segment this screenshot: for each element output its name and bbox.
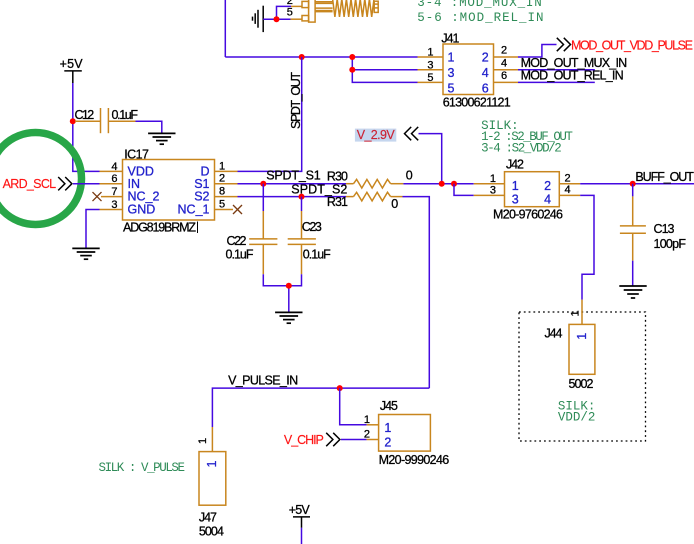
wire vertical into page top — [224, 0, 226, 57]
svg-text:4: 4 — [482, 66, 489, 80]
J42 pin numbers outside — [490, 173, 571, 197]
wire up to connector pin2 — [277, 6, 292, 19]
svg-text:5: 5 — [219, 199, 225, 211]
text cursor bar — [197, 222, 199, 234]
svg-text:SPDT_OUT: SPDT_OUT — [289, 72, 303, 129]
svg-text:3: 3 — [490, 185, 496, 197]
svg-text:1: 1 — [219, 160, 225, 172]
connector J42 — [474, 172, 581, 207]
svg-text:6: 6 — [501, 70, 507, 82]
wire C12 to ground — [136, 121, 162, 133]
J41 pin numbers inside — [448, 51, 489, 96]
junction J42 pin3 branch — [451, 181, 457, 187]
wire branch to J45 pin1 — [340, 388, 367, 425]
wire SPDT_OUT vertical — [238, 57, 302, 171]
svg-text:IN: IN — [128, 177, 141, 191]
svg-text:7: 7 — [111, 186, 117, 198]
svg-text:M20-9760246: M20-9760246 — [493, 208, 563, 222]
svg-text:6: 6 — [482, 82, 489, 96]
svg-text:+5V: +5V — [289, 503, 311, 517]
svg-text:4: 4 — [544, 192, 551, 206]
svg-text:VDD/2: VDD/2 — [558, 411, 596, 425]
wire R31 down to V_PULSE_IN — [403, 197, 430, 389]
port chevron ARD_SCL — [58, 177, 72, 190]
svg-text:J47: J47 — [199, 511, 217, 525]
svg-text:1: 1 — [569, 310, 581, 316]
wire SPDT_S1 — [238, 183, 347, 185]
wire ground to connector pin5 — [263, 18, 290, 20]
svg-text:0: 0 — [406, 168, 413, 182]
svg-text:61300621121: 61300621121 — [443, 96, 511, 110]
svg-text:NC_1: NC_1 — [178, 203, 210, 217]
svg-text:2: 2 — [501, 45, 507, 57]
junction S1 / C22 — [260, 181, 266, 187]
connector J44 — [569, 300, 595, 375]
wire V_CHIP to J45 pin2 — [341, 439, 367, 441]
wire stub to ground — [288, 286, 290, 312]
coax connector J40 body (cut off at top) — [302, 0, 378, 22]
svg-text:R30: R30 — [327, 169, 348, 183]
svg-text:J45: J45 — [380, 399, 398, 413]
svg-text:J42: J42 — [506, 158, 524, 172]
svg-text:2: 2 — [364, 429, 370, 441]
silk note at J44 — [558, 400, 596, 425]
highlight circle (green) — [0, 133, 82, 225]
junction S2 / C23 — [299, 194, 305, 200]
svg-text:1: 1 — [490, 173, 496, 185]
svg-text:C12: C12 — [75, 108, 95, 122]
svg-text:GND: GND — [128, 203, 156, 217]
svg-text:5: 5 — [287, 7, 293, 19]
svg-text:MOD_OUT_VDD_PULSE: MOD_OUT_VDD_PULSE — [571, 39, 693, 53]
svg-text:1: 1 — [512, 179, 519, 193]
svg-text:5002: 5002 — [569, 377, 594, 391]
wire J41 pin2 to MOD_OUT_VDD_PULSE — [518, 45, 557, 58]
junction J41 branch mid — [349, 67, 355, 73]
connector J41 — [418, 44, 519, 95]
svg-text:1: 1 — [364, 414, 370, 426]
svg-text:4: 4 — [565, 184, 571, 196]
svg-text:3: 3 — [512, 192, 519, 206]
svg-text:3: 3 — [427, 59, 433, 71]
junction V_PULSE_IN / J45 — [337, 385, 343, 391]
svg-text:1: 1 — [575, 333, 589, 340]
wire MOD_OUT_REL_IN — [518, 81, 595, 83]
ground at IC17 — [72, 248, 99, 259]
net flag V_2.9V — [355, 128, 396, 142]
connector pin 2 stub — [291, 5, 302, 7]
svg-text:0.1uF: 0.1uF — [303, 248, 331, 262]
svg-text:8: 8 — [219, 186, 225, 198]
wire C13 to ground — [632, 261, 634, 286]
connector J45 — [367, 415, 431, 452]
wire branch to J41 pin3 — [352, 57, 417, 82]
svg-text:2: 2 — [482, 51, 489, 65]
power +5V top — [60, 57, 84, 83]
port chevron V_CHIP — [326, 433, 340, 446]
ground at C22/C23 — [275, 312, 302, 323]
svg-text:+5V: +5V — [60, 57, 84, 71]
capacitor C12 — [75, 108, 136, 133]
chassis ground at connector — [253, 6, 264, 32]
svg-text:5-6 :MOD_REL_IN: 5-6 :MOD_REL_IN — [417, 11, 543, 25]
svg-text:S2: S2 — [194, 190, 209, 204]
wire MOD_OUT_MUX_IN — [518, 69, 595, 71]
svg-text:2: 2 — [544, 179, 551, 193]
svg-text:1: 1 — [448, 51, 455, 65]
svg-text:BUFF_OUT: BUFF_OUT — [635, 170, 694, 184]
port chevron V_2.9V — [405, 127, 419, 140]
svg-text:4: 4 — [501, 57, 507, 69]
svg-text:6: 6 — [111, 173, 117, 185]
svg-text:1: 1 — [197, 438, 209, 444]
svg-text:SILK : V_PULSE: SILK : V_PULSE — [99, 461, 186, 475]
svg-text:C23: C23 — [302, 220, 322, 234]
svg-text:IC17: IC17 — [124, 148, 149, 162]
silk note at J42 — [481, 119, 573, 155]
junction BUFF_OUT / C13 — [630, 181, 636, 187]
svg-text:2: 2 — [219, 173, 225, 185]
capacitor C22 — [249, 184, 277, 275]
capacitor C13 — [620, 184, 646, 261]
svg-text:100pF: 100pF — [654, 237, 687, 251]
svg-text:MOD_OUT_REL_IN: MOD_OUT_REL_IN — [521, 69, 624, 83]
resistor R31 — [346, 192, 403, 201]
ground at C12 — [148, 133, 175, 144]
svg-text:3: 3 — [111, 199, 117, 211]
svg-text:5: 5 — [427, 72, 433, 84]
capacitor C23 — [288, 197, 316, 275]
junction SPDT_OUT — [299, 54, 305, 60]
ground at C13 — [619, 286, 646, 298]
junction at connector ground — [274, 16, 280, 22]
wire SPDT_S2 — [238, 196, 347, 198]
svg-text:3: 3 — [448, 66, 455, 80]
svg-text:R31: R31 — [327, 195, 348, 209]
svg-text:C22: C22 — [227, 234, 247, 248]
wire V_PULSE_IN — [212, 388, 429, 427]
svg-text:0.1uF: 0.1uF — [112, 108, 139, 122]
svg-text:SPDT_S1: SPDT_S1 — [266, 169, 321, 183]
svg-text:V_2.9V: V_2.9V — [357, 128, 396, 142]
svg-text:NC_2: NC_2 — [128, 190, 160, 204]
junction at C12 — [70, 118, 76, 124]
svg-text:5: 5 — [448, 82, 455, 96]
wire V_2.9V to R30 net — [419, 134, 442, 184]
wire J42 pin4 down to J44 — [580, 195, 594, 299]
IC17 pin names — [128, 165, 210, 217]
IC17 pin numbers — [111, 160, 225, 211]
wire branch to J42 pin3 — [454, 184, 474, 196]
port chevron MOD_OUT_VDD_PULSE — [557, 38, 571, 51]
svg-text:C13: C13 — [654, 222, 675, 236]
wire IC17 GND to ground — [86, 210, 100, 249]
svg-text:J44: J44 — [545, 327, 563, 341]
svg-text:M20-9990246: M20-9990246 — [379, 453, 450, 467]
svg-text:2: 2 — [384, 435, 391, 449]
dotted silk box — [519, 312, 646, 441]
wire R30 to J42 pin1 — [403, 183, 473, 185]
svg-text:2: 2 — [565, 173, 571, 185]
wire caps to ground — [263, 274, 301, 286]
no-connect X pin7 — [93, 192, 102, 201]
svg-text:1: 1 — [384, 421, 391, 435]
wire +5V bottom down — [301, 528, 303, 544]
junction caps ground — [286, 283, 292, 289]
svg-text:V_PULSE_IN: V_PULSE_IN — [228, 373, 298, 387]
power +5V bottom — [289, 503, 311, 528]
svg-text:1: 1 — [205, 461, 219, 468]
svg-text:S1: S1 — [194, 177, 209, 191]
J45 pin numbers outside — [364, 414, 370, 441]
op IC17 ADG819 — [100, 160, 238, 221]
J42 pin numbers inside — [512, 179, 551, 206]
wire bus to J41 pin1 — [225, 56, 417, 58]
junction V_2.9V — [439, 181, 445, 187]
wire to J41 pin3 row — [352, 69, 417, 71]
resistor R30 — [346, 179, 403, 188]
connector pin 5 stub — [291, 18, 303, 20]
svg-text:5004: 5004 — [199, 525, 224, 539]
wire ARD_SCL to IC17 IN — [73, 183, 100, 185]
J41 pin numbers outside — [427, 45, 507, 84]
svg-text:0.1uF: 0.1uF — [226, 248, 254, 262]
svg-text:3-4 :S2_VDD/2: 3-4 :S2_VDD/2 — [481, 141, 562, 155]
J45 pin numbers inside — [384, 421, 391, 450]
svg-text:1: 1 — [427, 47, 433, 59]
svg-text:V_CHIP: V_CHIP — [284, 433, 324, 447]
connector J47 — [199, 427, 226, 505]
wire BUFF_OUT — [580, 183, 694, 185]
svg-text:0: 0 — [391, 197, 398, 211]
svg-text:ADG819BRMZ: ADG819BRMZ — [123, 221, 196, 235]
svg-text:3-4 :MOD_MUX_IN: 3-4 :MOD_MUX_IN — [417, 0, 542, 10]
junction J41 branch top — [349, 54, 355, 60]
no-connect X pin5 — [233, 205, 242, 214]
svg-text:4: 4 — [111, 161, 117, 173]
svg-text:J41: J41 — [441, 32, 459, 46]
svg-text:ARD_SCL: ARD_SCL — [3, 177, 57, 191]
wire +5V rail down to IC17 VDD — [73, 83, 100, 171]
